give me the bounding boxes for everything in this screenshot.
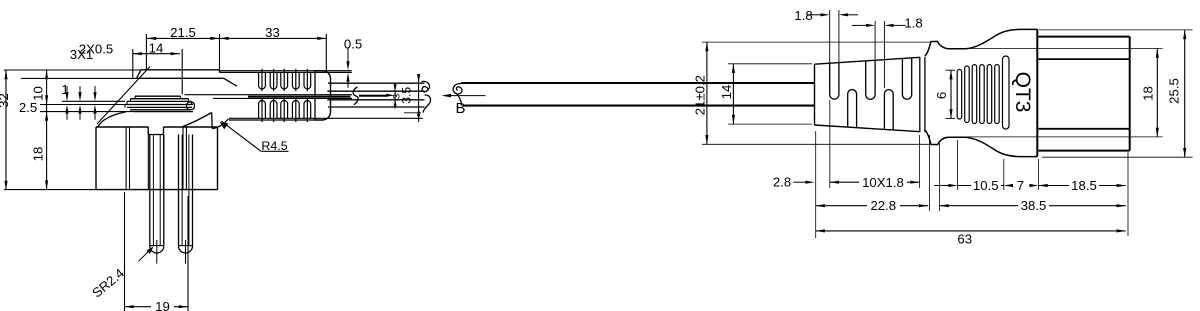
label 3X1 (70, 47, 93, 62)
dim 1.8 first (slot width) (794, 8, 858, 66)
bell right edge (1036, 29, 1038, 156)
cable inside grip / neck lines (185, 95, 387, 99)
barrel silhouette lines (dia 18) (959, 49, 1163, 137)
svg-text:10.5: 10.5 (973, 178, 999, 193)
cable end break (double curl) (422, 81, 431, 112)
dim 21±0.2 (693, 42, 931, 144)
dim 0.5 (grip top step) (344, 37, 362, 88)
dim 14 (relief height) (719, 64, 812, 124)
svg-text:18: 18 (1141, 86, 1156, 101)
svg-text:14: 14 (149, 40, 164, 55)
label QT3 (1011, 72, 1034, 113)
dim 7 (1004, 159, 1039, 193)
cable sheath (plug side) (328, 83, 425, 107)
bellows ribs (957, 56, 1009, 129)
dim 63 (816, 229, 1126, 246)
svg-text:10X1.8: 10X1.8 (862, 175, 904, 190)
dim 38.5 (940, 143, 1126, 213)
svg-text:R4.5: R4.5 (261, 139, 287, 153)
dim 21.5 (plug head offset) (146, 25, 219, 69)
long cable (461, 83, 815, 106)
svg-text:2.8: 2.8 (773, 174, 791, 189)
plug face body (96, 127, 218, 190)
svg-text:22.8: 22.8 (870, 198, 896, 213)
dim 14 (head width) (133, 40, 182, 94)
svg-text:B: B (455, 100, 465, 117)
left shoulder curve (98, 112, 126, 127)
svg-text:32: 32 (0, 93, 11, 108)
dim 18.5 (1039, 152, 1129, 236)
svg-text:21±0.2: 21±0.2 (693, 75, 708, 115)
svg-text:7: 7 (1017, 178, 1024, 193)
dim 10.5 (934, 140, 1004, 193)
dim 22.8 (816, 135, 930, 213)
svg-text:2.5: 2.5 (19, 100, 37, 115)
dim 6 (rib height) (934, 70, 955, 118)
svg-text:63: 63 (957, 232, 972, 247)
dim 1.8 second (web width) (852, 16, 923, 88)
dim 3 (wire) vertical (386, 83, 403, 109)
svg-text:21.5: 21.5 (170, 25, 196, 40)
cable grip outline (33 section) (220, 71, 423, 120)
svg-text:10: 10 (31, 86, 46, 101)
svg-text:14: 14 (719, 85, 734, 100)
cable grip right cap (315, 71, 331, 120)
collar and bell outline bottom (925, 130, 1037, 157)
pin right (179, 135, 193, 264)
dim 32 (overall height) (0, 70, 141, 190)
svg-text:3.5: 3.5 (400, 87, 414, 104)
svg-text:18: 18 (31, 147, 46, 162)
svg-text:19: 19 (155, 299, 170, 311)
label SR2.4 with leader (89, 247, 153, 301)
dim 19 (pins) (125, 192, 189, 311)
right shoulder curve and notch (183, 113, 229, 129)
plug head ring stack (125, 96, 193, 111)
dim 18 (barrel dia) (1141, 49, 1159, 137)
cable direction arrow B (442, 94, 486, 117)
dim 3.5 (sheath) vertical (400, 74, 421, 122)
relief top slots (3) (830, 58, 912, 99)
dim 2.8 (773, 131, 816, 238)
cable break squiggle (353, 87, 358, 105)
connector end block (1038, 37, 1129, 151)
svg-text:33: 33 (265, 25, 280, 40)
grip bottom slots (5) with stems (259, 98, 311, 122)
long cable start break loop (453, 83, 462, 105)
label 2X0.5 (79, 42, 113, 57)
relief bottom slots (2) (848, 90, 894, 130)
svg-text:3X1: 3X1 (70, 47, 93, 62)
grip top slots (5) with stems (259, 69, 311, 91)
collar and bell outline top (925, 29, 1037, 56)
svg-text:38.5: 38.5 (1021, 198, 1047, 213)
dim 10X1.8 (830, 100, 920, 190)
dim 1 (ring groove depth) (61, 82, 125, 120)
face interior channels (126, 127, 186, 190)
dim 33 (cable grip length) (220, 25, 327, 70)
dim 10 / 18 / 2.5 (left stack) (19, 70, 137, 190)
svg-text:1.8: 1.8 (904, 16, 922, 31)
pin left (150, 135, 164, 264)
cable wires (plug side) (327, 91, 424, 100)
head right knob (187, 102, 195, 110)
dim 25.5 (bell dia) (1039, 30, 1193, 157)
svg-text:6: 6 (934, 92, 949, 99)
svg-text:18.5: 18.5 (1071, 178, 1097, 193)
strain relief body (815, 57, 925, 132)
svg-text:25.5: 25.5 (1167, 78, 1182, 104)
svg-text:0.5: 0.5 (344, 37, 362, 52)
svg-text:QT3: QT3 (1011, 72, 1034, 113)
section diagonal (97, 67, 150, 125)
leader R4.5 (220, 121, 289, 153)
plug upper body top edge (137, 70, 238, 86)
